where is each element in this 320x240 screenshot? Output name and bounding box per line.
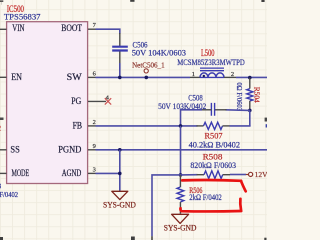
svg-text:SW: SW	[67, 72, 83, 83]
sheet ruler tick bottom-middle	[131, 237, 135, 240]
wire C506 bottom to SW wire	[119, 63, 121, 77]
pin VIN stub	[0, 28, 7, 30]
capacitor C506 plates	[112, 47, 128, 51]
inductor L500 baseline	[200, 76, 224, 78]
inductor L500 body	[200, 73, 224, 78]
op-amp U1 = IC body of IC500	[7, 22, 88, 184]
resistor R508 right pin	[223, 174, 230, 176]
red annotation scribble right upper diagonal	[241, 181, 246, 192]
pin 3 AGND stub	[88, 172, 96, 174]
power port 12V stub	[246, 174, 249, 176]
svg-text:MCSM85Z3R3MWTPD: MCSM85Z3R3MWTPD	[177, 57, 245, 67]
svg-text:FB: FB	[73, 120, 82, 131]
wire off-sheet dark tip	[151, 236, 153, 240]
resistor R504 top pin	[249, 78, 251, 89]
junction divider node	[179, 173, 183, 177]
inductor L500 core bars	[200, 68, 224, 71]
wire R507 to corner	[230, 125, 251, 127]
wire FB riser down to divider node	[180, 126, 182, 175]
wire R508 to 12V port	[230, 174, 246, 176]
pin 4 PG stub	[88, 100, 106, 102]
resistor R506 bottom pin	[179, 202, 181, 214]
svg-text:9: 9	[93, 143, 96, 150]
capacitor C508 right pin	[215, 109, 227, 111]
no-ERC marker X on PG pin	[105, 98, 111, 104]
junction PGND	[118, 148, 122, 152]
red annotation scribble bottom stroke	[180, 208, 241, 211]
junction AGND	[118, 172, 122, 176]
junction R504 bottom / C508 node	[248, 109, 252, 113]
red annotation scribble top stroke	[182, 179, 241, 183]
junction at output node	[248, 76, 252, 80]
wire SW net	[96, 76, 191, 78]
wire divider node to left and down off-sheet	[152, 175, 181, 236]
cut-off component bar at left edge	[0, 118, 4, 121]
svg-text:SYS-GND: SYS-GND	[164, 223, 197, 232]
wire AGND	[96, 172, 120, 174]
svg-text:VIN: VIN	[12, 23, 24, 34]
resistor R504 bottom pin	[249, 101, 251, 111]
svg-text:2: 2	[93, 119, 96, 126]
svg-text:PG: PG	[71, 96, 81, 107]
wire L500 out to right edge	[236, 76, 267, 78]
resistor R507 right pin	[223, 125, 230, 127]
svg-text:0Ω F/0603: 0Ω F/0603	[235, 83, 243, 112]
svg-text:12V: 12V	[255, 170, 267, 179]
svg-text:SS: SS	[10, 144, 19, 155]
resistor R507 left pin	[197, 125, 204, 127]
inductor L500 polarity dot	[203, 75, 205, 77]
wire divider node to R508	[181, 174, 198, 176]
wire PGND net	[96, 149, 268, 151]
wire BOOT to C506 top	[96, 29, 120, 34]
pin 9 PGND stub	[88, 149, 96, 151]
svg-text:50V 103K/0402: 50V 103K/0402	[158, 101, 206, 111]
svg-text:PGND: PGND	[58, 144, 81, 155]
svg-text:6: 6	[93, 71, 96, 78]
resistor R506 zigzag	[177, 187, 184, 202]
resistor R507 zigzag	[204, 122, 223, 129]
svg-text:BOOT: BOOT	[61, 23, 82, 34]
junction under net label	[145, 76, 149, 80]
svg-text:TPS56837: TPS56837	[4, 11, 41, 21]
svg-text:1: 1	[192, 71, 195, 78]
pin 2 FB stub	[88, 125, 96, 127]
pin MODE stub	[0, 172, 7, 174]
pin SS stub	[0, 149, 7, 151]
resistor R508 zigzag	[204, 171, 223, 179]
wire from node down to FB corner	[249, 110, 251, 126]
cut-off dark text fragment at right edge	[265, 118, 267, 122]
sheet ruler tick top-left	[0, 0, 3, 2]
red annotation scribble right lower stroke	[239, 199, 242, 210]
wire C508 branch right part	[226, 109, 250, 112]
ground SYS-GND 2	[172, 214, 189, 223]
wire PGND down to AGND	[119, 150, 121, 192]
wire FB net	[96, 125, 198, 127]
inductor L500 pin 2	[224, 76, 236, 78]
capacitor C508 plates	[211, 103, 214, 116]
sheet ruler tick top-right	[261, 0, 264, 2]
capacitor C508 left pin	[201, 109, 211, 111]
svg-text:F/0402: F/0402	[0, 191, 19, 199]
resistor R506 top pin	[179, 175, 181, 187]
pin EN stub	[0, 76, 7, 78]
net connection circle NetC506_1	[144, 69, 148, 73]
capacitor C506 bottom pin	[119, 52, 121, 65]
svg-text:40.2kΩ B/0402: 40.2kΩ B/0402	[189, 139, 240, 149]
resistor R504 zigzag	[247, 89, 253, 101]
capacitor C506 top pin	[119, 33, 121, 46]
ground SYS-GND 1	[112, 191, 128, 199]
svg-text:2kΩ F/0402: 2kΩ F/0402	[189, 192, 222, 202]
pin 7 BOOT stub	[88, 28, 96, 30]
svg-text:820kΩ F/0603: 820kΩ F/0603	[190, 160, 236, 170]
power port 12V circle	[249, 172, 253, 176]
junction at C506/SW	[118, 76, 122, 80]
svg-text:AGND: AGND	[62, 168, 82, 179]
resistor R508 left pin	[197, 174, 205, 176]
cut-off blue text fragment at right edge	[266, 124, 268, 127]
cut-off sheet border line top-left	[0, 2, 3, 5]
svg-text:R504: R504	[252, 87, 260, 104]
svg-text:3: 3	[93, 167, 96, 174]
svg-text:NetC506_1: NetC506_1	[132, 61, 165, 70]
sheet ruler tick bottom-left	[0, 237, 3, 240]
svg-text:EN: EN	[11, 72, 22, 83]
sheet ruler tick bottom-right	[264, 238, 266, 240]
svg-text:SYS-GND: SYS-GND	[103, 201, 136, 210]
sheet ruler tick top-middle	[130, 0, 134, 2]
junction FB / riser	[179, 124, 183, 128]
pin 6 SW stub	[88, 76, 96, 78]
svg-text:MODE: MODE	[12, 168, 30, 179]
inductor L500 pin 1	[190, 76, 200, 78]
wire C508 branch left + riser to FB	[181, 110, 203, 126]
svg-text:50V 104K/0603: 50V 104K/0603	[132, 47, 186, 57]
svg-text:2: 2	[231, 71, 234, 78]
